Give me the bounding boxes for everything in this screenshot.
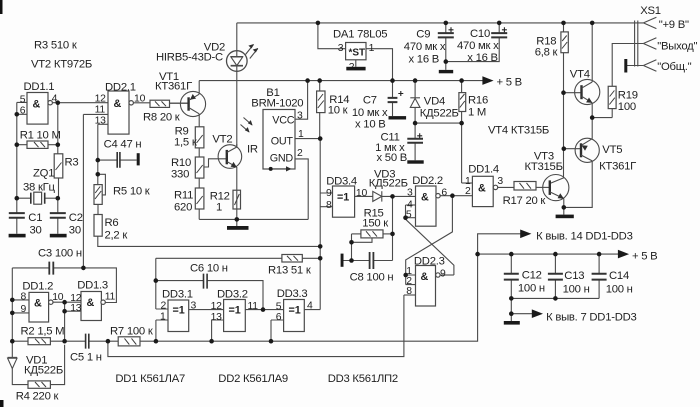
svg-text:2: 2 [465,186,471,197]
svg-text:C2: C2 [69,212,83,224]
svg-text:VT4 КТ315Б: VT4 КТ315Б [488,125,549,137]
svg-text:DD3.2: DD3.2 [217,289,248,301]
svg-text:*ST: *ST [349,48,366,59]
svg-text:6: 6 [441,188,447,199]
svg-text:К выв. 7 DD1-DD3: К выв. 7 DD1-DD3 [546,312,637,324]
svg-text:100 н: 100 н [606,284,633,296]
svg-text:330: 330 [171,169,189,181]
svg-text:100: 100 [618,101,636,113]
svg-text:C10: C10 [470,28,490,40]
svg-text:1: 1 [160,312,166,323]
svg-text:R5 10 к: R5 10 к [113,186,150,198]
svg-text:R17 20 к: R17 20 к [503,195,546,207]
svg-text:&: & [33,99,41,111]
svg-text:8: 8 [326,200,332,211]
svg-text:"Выход": "Выход" [657,41,697,53]
svg-text:+ 5 В: + 5 В [632,251,657,263]
svg-text:OUT: OUT [271,136,294,148]
svg-text:3: 3 [497,176,503,187]
svg-text:BRM-1020: BRM-1020 [251,98,303,110]
svg-text:К выв. 14 DD1-DD3: К выв. 14 DD1-DD3 [536,231,633,243]
svg-text:5: 5 [20,95,26,106]
svg-text:IR: IR [247,144,258,156]
svg-text:3: 3 [297,111,303,122]
svg-text:38 кГц: 38 кГц [23,182,56,194]
svg-text:C12: C12 [522,270,542,282]
svg-text:6: 6 [276,312,282,323]
svg-text:&: & [34,298,42,310]
svg-text:VD4: VD4 [424,96,445,108]
svg-text:1: 1 [298,129,304,140]
svg-text:"+9 В": "+9 В" [659,19,689,31]
svg-text:4: 4 [307,301,313,312]
svg-text:XS1: XS1 [640,5,661,17]
svg-text:150 к: 150 к [362,218,388,230]
svg-text:12: 12 [211,301,223,312]
svg-text:&: & [421,271,429,283]
svg-text:DD2 К561ЛА9: DD2 К561ЛА9 [218,373,288,385]
svg-text:2: 2 [297,148,303,159]
svg-text:DD3 К561ЛП2: DD3 К561ЛП2 [328,373,398,385]
svg-text:КД522Б: КД522Б [24,365,63,377]
svg-text:&: & [478,183,486,195]
svg-text:HIRB5-43D-C: HIRB5-43D-C [156,52,223,64]
svg-text:1,5 к: 1,5 к [174,137,197,149]
svg-text:R16: R16 [468,95,488,107]
svg-text:R7 100 к: R7 100 к [110,326,153,338]
svg-text:&: & [421,192,429,204]
svg-text:6: 6 [20,106,26,117]
svg-text:КТ361Г: КТ361Г [599,161,636,173]
svg-text:1 М: 1 М [468,107,486,119]
svg-text:C8 100 н: C8 100 н [350,272,394,284]
svg-text:DD1.1: DD1.1 [24,81,55,93]
svg-text:9: 9 [21,304,27,315]
svg-text:1: 1 [369,43,375,54]
svg-text:11: 11 [105,292,116,303]
svg-text:R8 20 к: R8 20 к [143,112,180,124]
svg-text:5: 5 [406,210,412,221]
svg-text:8: 8 [21,292,27,303]
svg-text:C7: C7 [363,95,377,107]
svg-text:КТ361Г: КТ361Г [155,81,192,93]
svg-text:R6: R6 [105,217,119,229]
svg-text:13: 13 [211,312,223,323]
svg-text:C5 1 н: C5 1 н [70,352,102,364]
svg-text:КД522Б: КД522Б [369,178,408,190]
svg-text:3: 3 [338,43,344,54]
svg-text:10: 10 [52,292,64,303]
svg-text:R3: R3 [65,157,79,169]
svg-text:8: 8 [406,286,412,297]
svg-text:C14: C14 [609,270,629,282]
svg-text:C3 100 н: C3 100 н [38,248,82,260]
svg-text:х 50 В: х 50 В [377,152,408,164]
svg-text:ZQ1: ZQ1 [33,168,54,180]
svg-text:10: 10 [134,94,146,105]
svg-text:DD2.2: DD2.2 [412,175,443,187]
svg-text:R13 51 к: R13 51 к [268,265,311,277]
svg-text:10 мк х: 10 мк х [352,107,388,119]
svg-text:DD1.2: DD1.2 [22,281,53,293]
svg-text:2: 2 [161,301,167,312]
svg-text:9: 9 [440,269,446,280]
svg-text:"Общ.": "Общ." [657,61,691,73]
svg-text:КТ315Б: КТ315Б [525,161,563,173]
svg-text:GND: GND [270,153,294,165]
svg-text:12: 12 [95,94,107,105]
svg-text:R4 220 к: R4 220 к [16,391,59,403]
svg-text:DD1 К561ЛА7: DD1 К561ЛА7 [115,373,185,385]
svg-text:+ 5 В: + 5 В [497,77,522,89]
svg-text:DD1.3: DD1.3 [77,280,108,292]
svg-text:=1: =1 [337,192,349,204]
svg-text:C6 10 н: C6 10 н [190,263,228,275]
svg-text:&: & [114,98,122,110]
svg-text:DD3.3: DD3.3 [277,288,308,300]
svg-text:R2 1,5 М: R2 1,5 М [21,326,65,338]
svg-text:470 мк х: 470 мк х [404,41,446,53]
svg-text:=1: =1 [289,305,301,317]
svg-text:R10: R10 [171,157,191,169]
svg-text:DA1 78L05: DA1 78L05 [333,29,387,41]
svg-text:470 мк х: 470 мк х [457,40,499,52]
svg-text:R1 10 М: R1 10 М [20,130,61,142]
svg-text:R19: R19 [618,90,638,102]
svg-text:КД522Б: КД522Б [420,108,459,120]
svg-text:30: 30 [30,225,42,237]
svg-text:6,8 к: 6,8 к [535,47,558,59]
svg-text:9: 9 [326,188,332,199]
svg-text:100 н: 100 н [563,284,590,296]
svg-text:VT2: VT2 [212,134,232,146]
svg-text:х 16 В: х 16 В [467,52,498,64]
svg-text:1: 1 [216,202,222,214]
svg-text:=1: =1 [173,305,185,317]
svg-text:4: 4 [52,94,58,105]
svg-text:100 н: 100 н [518,283,545,295]
svg-text:10: 10 [356,188,368,199]
svg-text:11: 11 [248,301,259,312]
svg-text:2,2 к: 2,2 к [105,230,128,242]
svg-text:3: 3 [191,301,197,312]
svg-text:3: 3 [407,188,413,199]
svg-text:VT2 КТ972Б: VT2 КТ972Б [31,59,92,71]
svg-text:10 к: 10 к [328,105,348,117]
svg-text:VCC: VCC [272,115,294,127]
svg-text:DD3.4: DD3.4 [326,176,357,188]
svg-text:VT4: VT4 [570,69,590,81]
svg-text:13: 13 [70,303,82,314]
svg-text:C4 47 н: C4 47 н [104,139,142,151]
svg-text:х 16 В: х 16 В [409,54,440,66]
svg-text:13: 13 [95,116,107,127]
svg-text:620: 620 [174,202,192,214]
svg-text:DD2.3: DD2.3 [414,256,445,268]
svg-text:2: 2 [349,62,355,73]
svg-text:х 10 В: х 10 В [355,119,386,131]
svg-text:C1: C1 [28,212,42,224]
svg-text:VT5: VT5 [602,144,622,156]
svg-text:R3 510 к: R3 510 к [34,40,77,52]
svg-text:DD2.1: DD2.1 [105,82,136,94]
svg-text:C13: C13 [564,270,584,282]
svg-text:DD1.4: DD1.4 [468,164,499,176]
svg-text:&: & [87,297,95,309]
svg-text:R11: R11 [174,190,193,202]
svg-text:30: 30 [69,225,81,237]
svg-text:=1: =1 [229,305,241,317]
svg-text:DD3.1: DD3.1 [162,289,193,301]
svg-text:11: 11 [95,105,106,116]
svg-text:5: 5 [276,302,282,313]
svg-text:C9: C9 [416,29,430,41]
